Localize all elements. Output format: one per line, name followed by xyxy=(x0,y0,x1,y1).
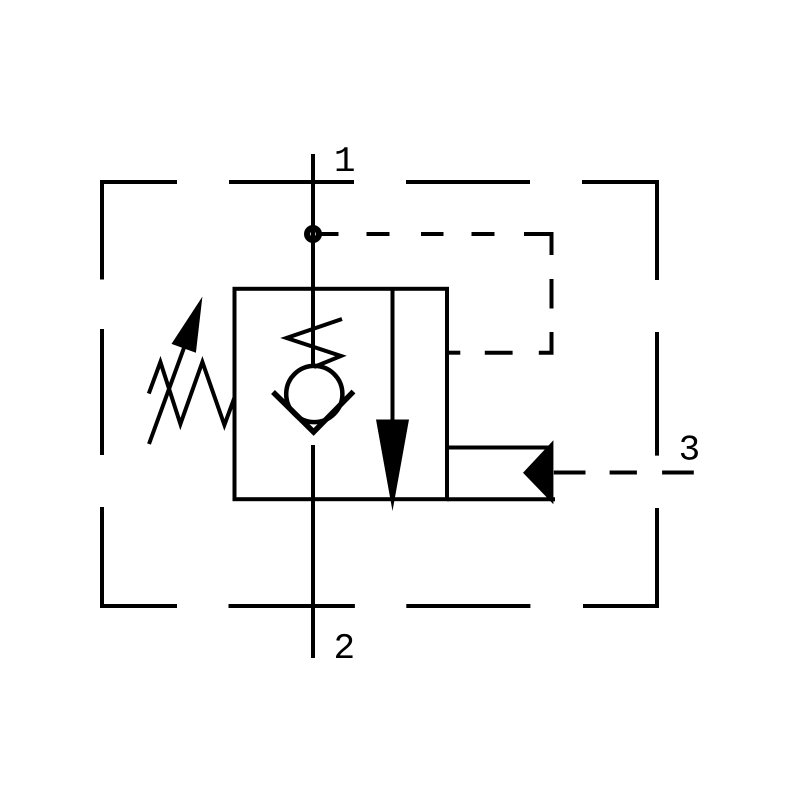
enclosure bottom dash A xyxy=(229,604,355,608)
enclosure bottom-left corner xyxy=(102,507,177,606)
enclosure left dash xyxy=(100,329,104,455)
port 1 line xyxy=(311,154,315,367)
enclosure right dash xyxy=(655,332,659,456)
port 3 channel bottom line xyxy=(447,497,555,501)
enclosure bottom-right corner xyxy=(583,508,657,606)
adjustment arrow head xyxy=(172,297,203,353)
port 3 channel top line xyxy=(447,446,551,450)
check valve seat V xyxy=(273,392,354,433)
port 2 line xyxy=(311,445,315,658)
adjustment arrow shaft xyxy=(149,323,193,444)
pilot line top-right corner dash xyxy=(524,234,552,255)
port 3 arrowhead (filled, leftward) xyxy=(523,440,553,504)
pilot line vertical dash xyxy=(550,279,554,309)
enclosure top dash A xyxy=(229,180,354,184)
flow arrow (filled, downward) xyxy=(376,420,409,512)
check valve poppet ball xyxy=(286,366,342,422)
label 1 xyxy=(337,147,354,171)
valve envelope box xyxy=(235,289,448,499)
enclosure bottom dash B xyxy=(406,604,530,608)
label 2 xyxy=(336,634,353,658)
enclosure top-right corner xyxy=(582,182,657,280)
adjustable spring zigzag xyxy=(149,362,235,425)
enclosure top-left corner xyxy=(102,182,177,280)
pilot line bottom corner dash xyxy=(539,332,552,353)
label 3 xyxy=(681,435,698,459)
internal divider line xyxy=(391,289,395,420)
enclosure top dash B xyxy=(406,180,530,184)
port 3 dashed line xyxy=(554,471,586,475)
pilot line horizontal to valve xyxy=(485,351,513,355)
pilot line horizontal from node xyxy=(319,232,339,236)
check valve spring xyxy=(287,319,343,367)
node junction circle xyxy=(307,228,319,240)
